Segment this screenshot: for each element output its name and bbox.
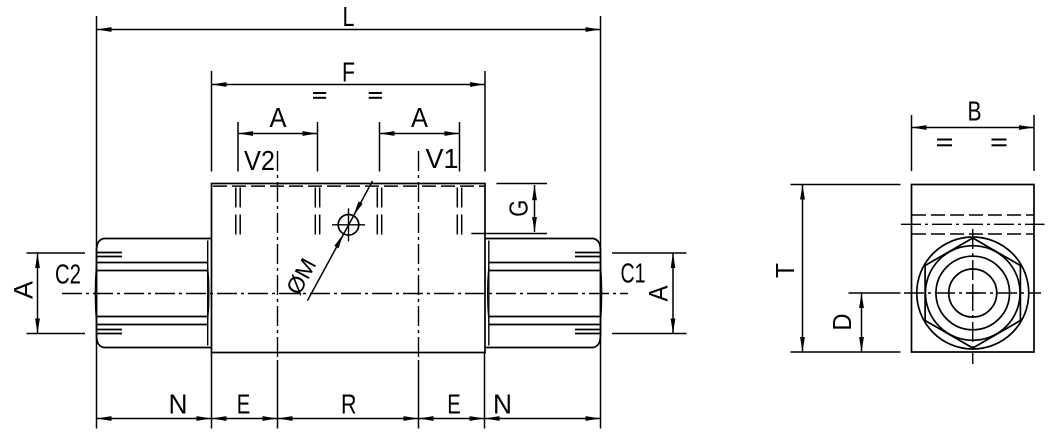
svg-text:R: R <box>341 389 357 420</box>
svg-text:T: T <box>770 263 800 278</box>
svg-text:N: N <box>169 389 188 420</box>
svg-text:A: A <box>644 286 674 302</box>
svg-text:V1: V1 <box>426 143 459 174</box>
svg-text:C1: C1 <box>621 258 646 289</box>
svg-text:A: A <box>8 281 38 299</box>
svg-text:A: A <box>270 102 287 133</box>
svg-text:G: G <box>504 200 534 217</box>
svg-text:D: D <box>827 314 857 331</box>
svg-text:E: E <box>237 389 251 420</box>
svg-text:A: A <box>411 102 428 133</box>
svg-text:E: E <box>447 389 461 420</box>
svg-text:L: L <box>343 1 355 32</box>
svg-text:N: N <box>493 389 512 420</box>
svg-text:V2: V2 <box>244 145 275 176</box>
svg-text:B: B <box>968 96 982 127</box>
svg-text:C2: C2 <box>55 259 81 290</box>
svg-text:F: F <box>342 57 355 88</box>
